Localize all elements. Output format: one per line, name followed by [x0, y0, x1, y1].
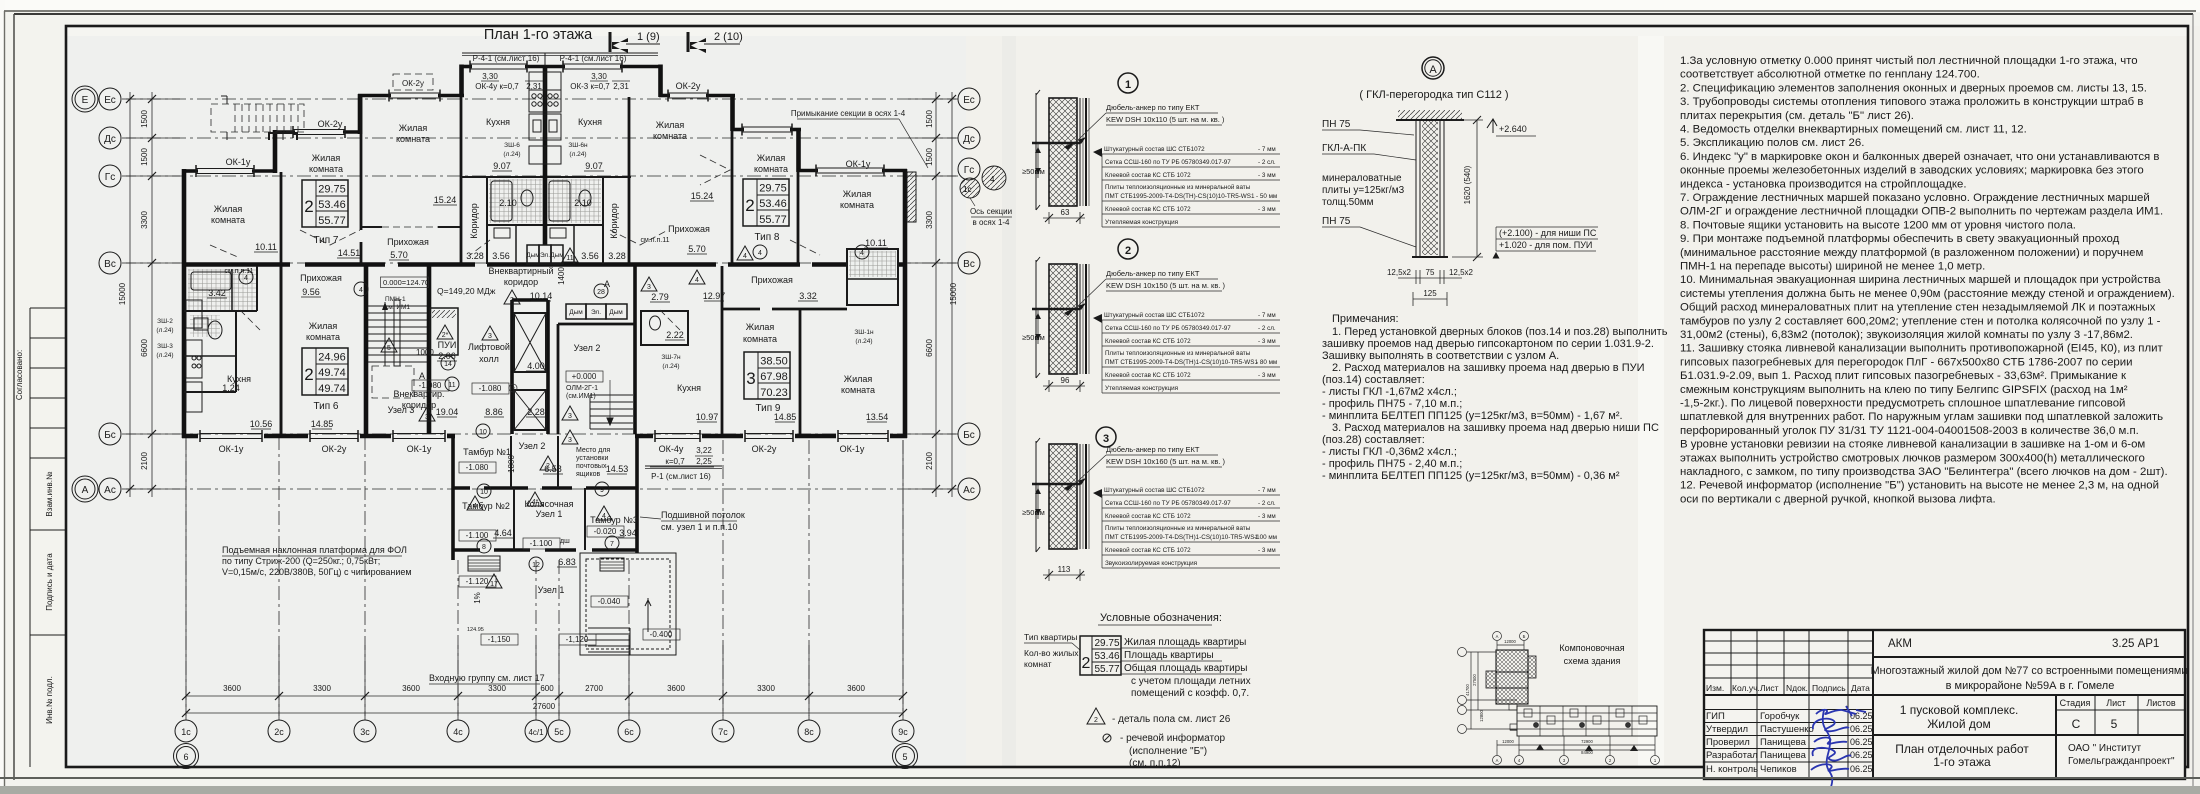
central corridor wall y=264.5 [184, 262, 905, 267]
svg-text:по типу Стриж-200 (Q=250кг.; 0: по типу Стриж-200 (Q=250кг.; 0,75кВт; [222, 556, 380, 566]
dashed door openings [210, 155, 820, 330]
svg-text:2: 2 [1082, 655, 1091, 672]
svg-text:15000: 15000 [118, 282, 127, 305]
svg-text:(л.24): (л.24) [855, 338, 872, 345]
area numbers underlined [208, 161, 888, 567]
svg-text:55.77: 55.77 [759, 214, 787, 226]
svg-text:Ось секции: Ось секции [970, 207, 1012, 216]
svg-text:7с: 7с [718, 727, 728, 737]
svg-text:15.24: 15.24 [691, 191, 714, 201]
svg-text:ОК-4у к=0,7: ОК-4у к=0,7 [475, 82, 519, 91]
svg-text:1500: 1500 [140, 148, 149, 166]
exterior wall (ОК-2у) y=132 [273, 126, 361, 138]
svg-text:7. Ограждение лестничных марше: 7. Ограждение лестничных маршей показано… [1680, 192, 2150, 204]
left axis circles [72, 86, 121, 502]
svg-text:Панищева: Панищева [1760, 750, 1807, 761]
svg-text:3.28: 3.28 [466, 251, 484, 261]
отметка [1487, 119, 1497, 128]
elevator hall walls [510, 300, 514, 434]
detail 3 callout [1096, 427, 1116, 447]
triangles with numbers [381, 165, 994, 588]
svg-text:13.54: 13.54 [866, 412, 889, 422]
перегородка drawing [1322, 110, 1598, 306]
svg-text:к=0,7: к=0,7 [665, 457, 685, 466]
svg-text:Ас: Ас [104, 485, 116, 496]
svg-text:ОК-4у: ОК-4у [659, 444, 684, 454]
svg-text:-1.100: -1.100 [530, 539, 553, 548]
svg-text:3.94: 3.94 [619, 528, 637, 538]
svg-text:49.74: 49.74 [318, 367, 346, 379]
svg-text:ОАО " Институт: ОАО " Институт [2068, 743, 2141, 754]
svg-text:2700: 2700 [585, 684, 603, 693]
svg-text:1.За условную отметку 0.000 пр: 1.За условную отметку 0.000 принят чисты… [1680, 55, 2138, 67]
svg-text:2 (10): 2 (10) [714, 31, 743, 43]
interior wall x=281 upper [280, 172, 283, 264]
svg-text:- минплита БЕЛТЕП ПП125 (у=12: - минплита БЕЛТЕП ПП125 (у=125кг/м3, в=5… [1322, 410, 1623, 422]
svg-text:Клеевой состав КС СТБ 1072: Клеевой состав КС СТБ 1072 [1105, 512, 1191, 520]
detail 1 table [1093, 145, 1280, 227]
svg-text:06.25: 06.25 [1850, 750, 1873, 760]
apartment type table тип6 [302, 348, 348, 412]
svg-text:Взам.инв.№: Взам.инв.№ [45, 471, 54, 517]
svg-text:Кол-во жилых: Кол-во жилых [1024, 648, 1079, 658]
svg-text:Сетка ССШ-160 по ТУ РБ 05780: Сетка ССШ-160 по ТУ РБ 05780349.017-97 [1105, 325, 1231, 332]
svg-text:Н. контроль: Н. контроль [1706, 764, 1758, 775]
svg-text:Эл.: Эл. [591, 309, 601, 316]
svg-text:12800: 12800 [1479, 710, 1484, 722]
svg-text:53.46: 53.46 [318, 199, 346, 211]
room wall x=732 mid [731, 131, 734, 264]
svg-text:4: 4 [359, 287, 363, 294]
svg-text:9: 9 [600, 487, 604, 494]
svg-text:3600: 3600 [402, 684, 420, 693]
svg-text:27600: 27600 [533, 702, 556, 711]
wall step x=660.5 [658, 65, 663, 98]
svg-text:комната: комната [840, 200, 874, 210]
svg-text:Р-1 (см.лист 16): Р-1 (см.лист 16) [651, 472, 711, 481]
svg-text:2*: 2* [442, 332, 449, 339]
stairwell walls [364, 266, 369, 434]
svg-text:Лифтовой: Лифтовой [468, 342, 510, 352]
svg-text:Дс: Дс [963, 134, 975, 145]
svg-text:1.24: 1.24 [222, 383, 240, 393]
kitchen bottom wall y=177 left [461, 176, 543, 178]
right part [1873, 656, 2185, 658]
svg-text:индекса - установка производит: индекса - установка производится на стро… [1680, 178, 1967, 190]
svg-text:Проверил: Проверил [1706, 737, 1750, 748]
callout А [1359, 57, 1508, 101]
svg-text:(поз.28) составляет:: (поз.28) составляет: [1322, 434, 1425, 446]
svg-text:3.56: 3.56 [581, 251, 599, 261]
svg-text:≥50мм: ≥50мм [1022, 167, 1045, 176]
svg-text:1: 1 [1125, 79, 1131, 91]
svg-text:12: 12 [532, 562, 540, 569]
svg-text:2.10: 2.10 [574, 198, 592, 208]
svg-text:6с: 6с [624, 727, 634, 737]
svg-text:- минплита БЕЛТЕП ПП125 (у=12: - минплита БЕЛТЕП ПП125 (у=125кг/м3, в=5… [1322, 470, 1620, 482]
svg-text:3.32: 3.32 [799, 291, 817, 301]
misc plan annotations [381, 277, 496, 296]
svg-text:Плиты теплоизоляционные из мин: Плиты теплоизоляционные из минеральной в… [1105, 183, 1251, 191]
svg-text:(минимальное расстояние между: (минимальное расстояние между платформой… [1680, 247, 2143, 259]
svg-text:Кол.уч.: Кол.уч. [1732, 683, 1760, 693]
svg-text:Жилая: Жилая [746, 322, 775, 332]
svg-text:29.75: 29.75 [1094, 638, 1119, 649]
svg-text:12. Речевой информатор (исполн: 12. Речевой информатор (исполнение "Б") … [1680, 480, 2159, 492]
svg-text:минераловатные: минераловатные [1322, 173, 1402, 184]
svg-text:гипсовых пазогребневых для: гипсовых пазогребневых для перегородок П… [1680, 356, 2132, 368]
svg-text:с учетом площади летних: с учетом площади летних [1131, 676, 1251, 687]
svg-text:- листы ГКЛ -0,36м2 х4сл.;: - листы ГКЛ -0,36м2 х4сл.; [1322, 446, 1457, 458]
svg-text:3: 3 [647, 284, 651, 291]
svg-text:3600: 3600 [223, 684, 241, 693]
svg-text:≥50мм: ≥50мм [1022, 508, 1045, 517]
bath fixtures [491, 181, 591, 238]
svg-text:5.70: 5.70 [390, 250, 408, 260]
svg-text:Примыкание секции в осях 1-4: Примыкание секции в осях 1-4 [791, 109, 906, 118]
svg-text:5: 5 [387, 345, 391, 352]
detail 1 wall section [1022, 90, 1089, 224]
svg-text:3: 3 [510, 297, 514, 304]
svg-text:Изм.: Изм. [1706, 683, 1724, 693]
wall y=309 right section [722, 308, 847, 311]
svg-text:Жилая площадь квартиры: Жилая площадь квартиры [1124, 637, 1246, 648]
section mark 1 [610, 31, 660, 53]
wall y=227 under тальроом [362, 226, 461, 228]
svg-text:Зашивку выполнять в соответст: Зашивку выполнять в соответствии с узлом… [1322, 350, 1559, 362]
svg-text:19.04: 19.04 [436, 407, 459, 417]
svg-text:2: 2 [1094, 717, 1098, 724]
svg-text:комната: комната [841, 385, 875, 395]
второй лест марш [590, 380, 633, 429]
window labels bottom [219, 444, 865, 454]
svg-text:9. При монтаже подъемной платф: 9. При монтаже подъемной платформы обесп… [1680, 233, 2120, 245]
svg-text:Кухня: Кухня [578, 117, 602, 127]
svg-text:(см. п.п.12): (см. п.п.12) [1129, 758, 1181, 769]
svg-text:( ГКЛ-перегородка тип С112 ): ( ГКЛ-перегородка тип С112 ) [1359, 89, 1508, 101]
svg-text:R: R [511, 387, 515, 393]
svg-text:63: 63 [1061, 208, 1070, 217]
svg-text:4: 4 [602, 513, 606, 520]
svg-text:1с: 1с [963, 185, 971, 194]
svg-text:KEW DSH 10x110 (5 шт. на м. кв: KEW DSH 10x110 (5 шт. на м. кв. ) [1106, 115, 1225, 124]
svg-text:6600: 6600 [140, 339, 149, 357]
svg-text:см. ИМ1: см. ИМ1 [385, 304, 410, 311]
svg-text:- 3 мм: - 3 мм [1258, 206, 1276, 213]
svg-text:А: А [1429, 64, 1437, 76]
svg-text:Коридор: Коридор [609, 203, 619, 239]
svg-text:5. Экспликацию полов см. лист: 5. Экспликацию полов см. лист 26. [1680, 137, 1864, 149]
svg-text:установки: установки [576, 455, 608, 462]
svg-text:Утепляемая конструкция: Утепляемая конструкция [1105, 219, 1178, 226]
svg-text:9.07: 9.07 [585, 161, 603, 171]
tambour walls [453, 436, 637, 560]
svg-text:2: 2 [304, 197, 313, 216]
svg-text:соответствует абсолютной отмет: соответствует абсолютной отметке по генп… [1680, 69, 1980, 81]
left dimension lines [126, 92, 180, 497]
svg-text:А: А [82, 485, 89, 496]
dim 63 [1043, 217, 1085, 219]
svg-text:Условные обозначения:: Условные обозначения: [1100, 612, 1222, 624]
svg-text:Дата: Дата [1851, 683, 1870, 693]
building strip miniature [1510, 706, 1657, 736]
svg-text:(л.24): (л.24) [156, 352, 173, 359]
svg-text:06.25: 06.25 [1850, 737, 1873, 747]
svg-text:- деталь пола см. лист 26: - деталь пола см. лист 26 [1112, 714, 1231, 725]
svg-text:2100: 2100 [140, 452, 149, 470]
detail 3 table [1093, 486, 1280, 568]
svg-text:4с/1: 4с/1 [528, 728, 544, 737]
svg-text:ЗШ-7н: ЗШ-7н [661, 354, 681, 361]
svg-text:Клеевой состав КС СТБ 1072: Клеевой состав КС СТБ 1072 [1105, 205, 1191, 213]
svg-text:3с: 3с [360, 727, 370, 737]
svg-text:Nдок.: Nдок. [1786, 683, 1808, 693]
svg-text:Утвердил: Утвердил [1706, 724, 1748, 735]
svg-text:Кухня: Кухня [677, 383, 701, 393]
svg-text:Ес: Ес [104, 95, 116, 106]
svg-text:10: 10 [479, 429, 487, 436]
svg-text:Бс: Бс [104, 430, 116, 441]
svg-text:Тип 8: Тип 8 [754, 232, 779, 243]
svg-text:схема здания: схема здания [1564, 656, 1621, 666]
svg-text:4с: 4с [453, 727, 463, 737]
svg-text:-1.080: -1.080 [479, 384, 502, 393]
svg-text:ПМН-1 на перепаде высоты) шир: ПМН-1 на перепаде высоты) шириной не мен… [1680, 261, 1985, 273]
svg-text:2,25: 2,25 [696, 457, 712, 466]
svg-text:этажах выполнить устройство см: этажах выполнить устройство смотровых лю… [1680, 452, 2145, 464]
header text [1706, 683, 1870, 693]
exterior wall (ОК-2у right) y=95.5 [659, 90, 735, 102]
svg-text:4.64: 4.64 [494, 528, 512, 538]
svg-text:2с: 2с [274, 727, 284, 737]
svg-text:Тип 6: Тип 6 [313, 401, 338, 412]
svg-text:5с: 5с [554, 727, 564, 737]
svg-text:10: 10 [480, 489, 488, 496]
svg-text:53.46: 53.46 [1094, 651, 1119, 662]
svg-text:Лист: Лист [2106, 698, 2126, 708]
svg-text:ящиков: ящиков [576, 471, 600, 478]
svg-text:Согласовано:: Согласовано: [15, 350, 24, 400]
svg-text:49.74: 49.74 [318, 383, 346, 395]
svg-text:3: 3 [568, 413, 572, 420]
svg-text:- 7 мм: - 7 мм [1258, 487, 1276, 494]
svg-text:31,00м2 (стены), 6,83м2 (потол: 31,00м2 (стены), 6,83м2 (потолок); звуко… [1680, 329, 2133, 341]
svg-text:Бс: Бс [963, 430, 975, 441]
svg-text:План отделочных работ: План отделочных работ [1895, 742, 2029, 756]
svg-text:70.23: 70.23 [760, 387, 788, 399]
lower right section walls [721, 266, 724, 434]
svg-text:1400: 1400 [557, 267, 566, 285]
svg-text:ЗШ-3: ЗШ-3 [157, 343, 173, 350]
svg-text:Жилая: Жилая [843, 189, 872, 199]
svg-text:- 2 сл.: - 2 сл. [1258, 325, 1276, 332]
svg-text:Узел 3: Узел 3 [388, 405, 415, 415]
svg-text:ЗШ-6н: ЗШ-6н [568, 142, 588, 149]
дашед ОК-2у box [393, 74, 433, 90]
svg-text:3300: 3300 [140, 211, 149, 229]
svg-text:4: 4 [743, 253, 747, 260]
verticals left part [1731, 630, 1848, 779]
svg-text:тамбуров по узлу 2 составляет: тамбуров по узлу 2 составляет 600,20м2; … [1680, 315, 2161, 327]
svg-text:Узел 1: Узел 1 [538, 585, 565, 595]
svg-text:6. Индекс "у" в маркировке око: 6. Индекс "у" в маркировке окон и балкон… [1680, 151, 2159, 163]
svg-text:3: 3 [488, 333, 492, 340]
svg-text:1800: 1800 [507, 455, 516, 473]
svg-text:+0.000: +0.000 [572, 372, 597, 381]
svg-text:V=0,15м/с, 220В/380В, 50Гц) с: V=0,15м/с, 220В/380В, 50Гц) с чипировани… [222, 567, 412, 577]
svg-text:17: 17 [490, 581, 498, 588]
svg-text:Лист: Лист [1760, 683, 1779, 693]
svg-text:75: 75 [1426, 268, 1435, 277]
legend речевой информатор [1103, 734, 1111, 742]
svg-text:(л.24): (л.24) [569, 151, 586, 158]
axis circles [1458, 632, 1660, 765]
svg-text:Дс: Дс [104, 134, 116, 145]
svg-text:см. узел 1 и п.п.10: см. узел 1 и п.п.10 [661, 522, 737, 532]
svg-text:3,30: 3,30 [482, 72, 498, 81]
anchor [1032, 142, 1080, 145]
svg-text:Пастушенко: Пастушенко [1760, 724, 1814, 735]
svg-text:Общая площадь квартиры: Общая площадь квартиры [1124, 662, 1247, 674]
right axis circles [958, 88, 980, 500]
дым шахты правой секции [566, 304, 627, 319]
svg-text:ОК-1у: ОК-1у [219, 444, 244, 454]
svg-text:Прихожая: Прихожая [668, 224, 710, 234]
svg-text:125: 125 [1423, 289, 1437, 298]
svg-text:ГКЛ-А-ПК: ГКЛ-А-ПК [1322, 143, 1366, 154]
svg-text:комната: комната [653, 131, 687, 141]
bottom dimension lines [186, 440, 903, 720]
svg-text:Жилая: Жилая [844, 374, 873, 384]
svg-text:1. Перед установкой дверных бл: 1. Перед установкой дверных блоков (поз.… [1332, 326, 1668, 338]
svg-text:Многоэтажный жилой дом №77 со: Многоэтажный жилой дом №77 со встроенным… [1871, 665, 2188, 677]
svg-text:1 (9): 1 (9) [637, 31, 660, 43]
svg-text:2,31: 2,31 [526, 82, 542, 91]
svg-text:Клеевой состав КС СТБ 1072: Клеевой состав КС СТБ 1072 [1105, 171, 1191, 179]
svg-text:96: 96 [1061, 376, 1070, 385]
svg-text:смежным конструкциям выполни: смежным конструкциям выполнить на клею п… [1680, 384, 2128, 396]
svg-text:14.53: 14.53 [606, 464, 629, 474]
sheet edge lines [4, 10, 2196, 12]
svg-text:ГИП: ГИП [1706, 711, 1725, 722]
svg-text:Прихожая: Прихожая [387, 237, 429, 247]
svg-text:Узел 2: Узел 2 [574, 343, 601, 353]
svg-text:10.14: 10.14 [530, 291, 553, 301]
detail 2 table [1093, 311, 1280, 393]
санузел 2.22 тип9 [641, 277, 688, 345]
bathrooms right block [547, 177, 603, 264]
svg-text:Р-4-1 (см.лист 16): Р-4-1 (см.лист 16) [473, 54, 540, 63]
svg-text:6: 6 [183, 752, 188, 762]
svg-text:1-го этажа: 1-го этажа [1933, 755, 1991, 769]
svg-text:(исполнение "Б"): (исполнение "Б") [1129, 746, 1207, 757]
svg-text:- листы ГКЛ -1,67м2 х4сл.;: - листы ГКЛ -1,67м2 х4сл.; [1322, 386, 1457, 398]
triangle 3 лифтовой холл [482, 326, 498, 340]
svg-text:комната: комната [754, 164, 788, 174]
svg-text:Клеевой состав КС СТБ 1072: Клеевой состав КС СТБ 1072 [1105, 546, 1191, 554]
svg-text:41700: 41700 [1465, 684, 1470, 696]
bottom scan band [0, 786, 2200, 794]
legend деталь пола [1087, 708, 1105, 724]
ПУИ closet [430, 308, 458, 355]
svg-text:3300: 3300 [313, 684, 331, 693]
svg-text:ЗШ-6: ЗШ-6 [504, 142, 520, 149]
стадия лист листов [2055, 695, 2057, 779]
svg-text:2,31: 2,31 [613, 82, 629, 91]
svg-text:Q=149,20 МДж: Q=149,20 МДж [437, 286, 496, 296]
svg-text:ПМТ СТБ1995-2009-Т4-DS(ТН)-CS(: ПМТ СТБ1995-2009-Т4-DS(ТН)-CS(10)10-TR5-… [1105, 193, 1255, 200]
svg-text:см.п.п.11: см.п.п.11 [641, 237, 670, 244]
svg-text:ОК-2у: ОК-2у [318, 119, 343, 129]
svg-text:ПН 75: ПН 75 [1322, 119, 1351, 130]
svg-text:Штукатурный состав ШС СТБ1072: Штукатурный состав ШС СТБ1072 [1104, 311, 1205, 319]
svg-text:Дым: Дым [569, 309, 583, 316]
svg-text:комната: комната [211, 215, 245, 225]
svg-text:11. Зашивку стояка ливневой ка: 11. Зашивку стояка ливневой канализации … [1680, 343, 2163, 355]
exterior wall top (ОК-4у / ОК-3) y=66.5 [460, 61, 662, 73]
wall step x=732.5 [730, 94, 735, 131]
svg-text:В уровне установки ревизии на: В уровне установки ревизии на стояке лив… [1680, 439, 2145, 451]
svg-text:Чепиков: Чепиков [1760, 764, 1797, 775]
svg-text:Гомельгражданпроект": Гомельгражданпроект" [2068, 756, 2175, 767]
svg-text:Тип 9: Тип 9 [755, 403, 780, 414]
svg-text:Подшивной потолок: Подшивной потолок [661, 510, 745, 520]
exterior wall bottom right y=436 [635, 430, 907, 442]
svg-text:+2.640: +2.640 [1499, 124, 1527, 134]
svg-text:(см.ИМ1): (см.ИМ1) [566, 393, 596, 400]
svg-text:Внеквартир.: Внеквартир. [393, 389, 444, 399]
svg-text:Тамбур №1: Тамбур №1 [463, 447, 511, 457]
svg-text:11: 11 [566, 255, 573, 262]
svg-text:- 2 сл.: - 2 сл. [1258, 500, 1276, 507]
svg-text:ПМТ СТБ1995-2009-Т4-DS(ТН)1-CS: ПМТ СТБ1995-2009-Т4-DS(ТН)1-CS(10)10-TR5… [1105, 359, 1258, 366]
svg-text:-0.020: -0.020 [594, 527, 617, 536]
svg-text:Б1.031.9-2.09, вып 1. Расход: Б1.031.9-2.09, вып 1. Расход плит гипсов… [1680, 370, 2127, 382]
svg-text:ЗШ-2: ЗШ-2 [157, 318, 173, 325]
svg-text:06.25: 06.25 [1850, 724, 1873, 734]
svg-text:ОК-1у: ОК-1у [846, 159, 871, 169]
corridor wall x=629 [628, 97, 631, 264]
svg-text:Вс: Вс [104, 259, 116, 270]
svg-text:Прихожая: Прихожая [751, 275, 793, 285]
svg-text:0.000=124.70: 0.000=124.70 [383, 278, 429, 287]
svg-text:10.56: 10.56 [250, 419, 273, 429]
svg-text:3.25 АР1: 3.25 АР1 [2112, 638, 2159, 650]
svg-text:KEW DSH 10x160 (5 шт. на м. кв: KEW DSH 10x160 (5 шт. на м. кв. ) [1106, 457, 1225, 466]
svg-text:27500: 27500 [1472, 674, 1477, 686]
svg-text:+1.020 - для пом. ПУИ: +1.020 - для пом. ПУИ [1499, 240, 1592, 250]
svg-text:зашивку проемов над дверью: зашивку проемов над дверью гипсокартоном… [1322, 338, 1654, 350]
svg-text:Место для: Место для [576, 447, 610, 454]
svg-text:комната: комната [309, 164, 343, 174]
svg-text:4: 4 [695, 277, 699, 284]
svg-text:- профиль ПН75 - 2,40 м.п.;: - профиль ПН75 - 2,40 м.п.; [1322, 458, 1462, 470]
svg-text:3: 3 [1103, 433, 1109, 445]
svg-text:55.77: 55.77 [318, 215, 346, 227]
svg-text:3600: 3600 [847, 684, 865, 693]
svg-text:Плиты теплоизоляционные из мин: Плиты теплоизоляционные из минеральной в… [1105, 524, 1251, 532]
svg-text:в осях 1-4: в осях 1-4 [972, 218, 1010, 227]
svg-text:Дым: Дым [550, 252, 564, 259]
svg-text:(поз.14) составляет:: (поз.14) составляет: [1322, 374, 1425, 386]
wall step x=798.5 [796, 128, 801, 172]
svg-text:Е: Е [82, 95, 89, 106]
detail 3 leader text [1078, 445, 1225, 485]
room wall x=798 [797, 172, 800, 264]
svg-text:10. Минимальная эвакуационная: 10. Минимальная эвакуационная ширина лес… [1680, 274, 2161, 286]
svg-text:2.28: 2.28 [527, 407, 545, 417]
svg-text:Штукатурный состав ШС СТБ1072: Штукатурный состав ШС СТБ1072 [1104, 486, 1205, 494]
